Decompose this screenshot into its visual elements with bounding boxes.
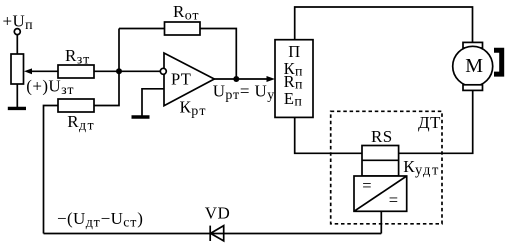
ground (op-amp) <box>132 115 150 118</box>
svg-text:VD: VD <box>205 204 230 223</box>
wire bottom feedback left segment <box>44 233 210 235</box>
svg-text:RS: RS <box>371 127 393 146</box>
wire P block bottom to RS block <box>295 117 362 153</box>
op-amp inverting input bubble <box>160 68 166 74</box>
wire op-amp output <box>214 78 268 80</box>
wire Rot right down to output <box>200 29 236 80</box>
arrow into P block <box>267 76 276 82</box>
dashed box DT <box>331 111 442 224</box>
wire converter bottom to feedback <box>380 211 382 233</box>
svg-text:РТ: РТ <box>171 69 191 88</box>
diode VD <box>209 226 211 241</box>
node output junction <box>233 76 239 82</box>
resistor Rzt <box>58 65 94 78</box>
wire motor bottom to RS block <box>399 90 473 153</box>
node +Un terminal circle <box>14 29 20 35</box>
potentiometer body <box>11 54 24 84</box>
wire bottom feedback right segment <box>211 233 382 235</box>
svg-text:ДТ: ДТ <box>418 113 441 132</box>
wire Rdt right up to summing node <box>94 29 119 106</box>
wire Rot left <box>119 28 165 30</box>
svg-text:=: = <box>389 190 399 209</box>
motor M top brush <box>463 42 483 48</box>
wire Rzt to op-amp input <box>94 70 160 72</box>
svg-text:=: = <box>362 176 372 195</box>
motor M bottom brush <box>463 85 483 91</box>
op-amp RT triangle <box>164 53 214 106</box>
wire non-inverting input to ground <box>142 89 164 116</box>
ground (under potentiometer) <box>8 107 26 110</box>
motor M body <box>453 46 493 86</box>
svg-text:М: М <box>465 55 483 77</box>
motor shaft load bracket <box>494 48 504 77</box>
resistor Rot <box>165 22 201 35</box>
wire P block top to motor <box>295 7 473 42</box>
wire terminal to potentiometer <box>16 35 18 54</box>
node summing junction <box>116 68 122 74</box>
svg-text:Uрт= Uу: Uрт= Uу <box>213 82 275 104</box>
tacho RS block <box>362 146 399 177</box>
converter block (diagonal) <box>354 176 407 211</box>
wire potentiometer to ground <box>16 84 18 107</box>
wiper arrow into potentiometer <box>31 70 59 72</box>
converter block P Kp Rp Ep <box>275 40 313 118</box>
resistor Rdt <box>58 99 94 112</box>
wire Rdt left to feedback bottom <box>44 106 59 234</box>
